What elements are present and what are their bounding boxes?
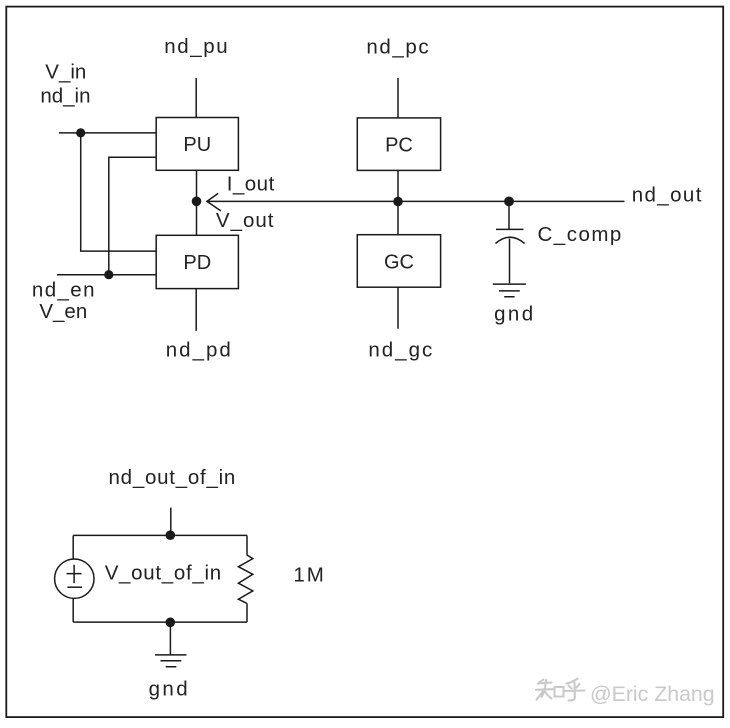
wire nd_en input — [57, 274, 156, 276]
buffer block PU — [156, 118, 238, 171]
buffer block PD — [156, 235, 238, 288]
wire V_in down to PD — [81, 133, 157, 251]
capacitor C_comp lead bottom — [509, 239, 511, 284]
junction dot V_out node — [192, 197, 202, 207]
watermark zhihu glyph zhi — [536, 680, 564, 700]
buffer block PC — [357, 118, 440, 170]
svg-text:nd_in: nd_in — [40, 84, 90, 107]
svg-text:PC: PC — [385, 134, 413, 156]
svg-text:@Eric Zhang: @Eric Zhang — [590, 682, 715, 706]
svg-text:gnd: gnd — [149, 677, 190, 700]
wire right rail lower — [246, 603, 248, 622]
junction dot C_comp node — [504, 197, 514, 207]
svg-text:nd_out: nd_out — [632, 184, 703, 207]
svg-text:V_en: V_en — [39, 300, 87, 323]
svg-text:nd_gc: nd_gc — [368, 338, 434, 361]
wire bottom rail — [73, 621, 247, 623]
node nd_pd wire — [195, 289, 197, 331]
svg-text:nd_pu: nd_pu — [164, 35, 229, 58]
wire PC to GC — [397, 170, 399, 234]
svg-text:I_out: I_out — [227, 172, 275, 195]
wire left rail upper — [72, 535, 74, 559]
svg-text:PD: PD — [183, 252, 211, 274]
svg-text:C_comp: C_comp — [538, 223, 623, 246]
svg-text:gnd: gnd — [494, 303, 535, 326]
voltage source V_out_of_in circle — [55, 559, 94, 598]
wire PU to PD — [196, 170, 198, 235]
node nd_out_of_in stub wire — [170, 508, 172, 536]
ground symbol top — [493, 284, 526, 297]
capacitor C_comp lead top — [508, 201, 510, 229]
junction dot nd_out_of_in top — [166, 530, 176, 540]
junction dot V_in node — [76, 128, 85, 137]
node nd_gc wire — [397, 287, 399, 329]
junction dot PC-GC node — [393, 197, 403, 207]
voltage source plus sign — [67, 565, 82, 583]
wire right rail upper — [246, 535, 248, 555]
resistor 1M zigzag — [238, 555, 252, 603]
wire nd_out horizontal — [207, 200, 625, 202]
wire top rail — [73, 534, 247, 536]
svg-text:nd_pd: nd_pd — [166, 338, 233, 361]
node nd_pu wire — [195, 78, 197, 118]
wire V_in input — [59, 132, 156, 134]
svg-text:V_out: V_out — [216, 209, 275, 232]
svg-text:V_in: V_in — [45, 60, 86, 83]
capacitor C_comp plates — [496, 229, 525, 243]
svg-text:GC: GC — [384, 251, 414, 273]
voltage source minus sign — [67, 586, 82, 588]
svg-text:nd_en: nd_en — [32, 279, 96, 302]
node nd_pc wire — [397, 78, 399, 118]
ground symbol bottom — [155, 655, 187, 667]
svg-text:nd_out_of_in: nd_out_of_in — [109, 466, 237, 489]
svg-text:1M: 1M — [293, 564, 325, 587]
svg-text:V_out_of_in: V_out_of_in — [105, 562, 222, 585]
wire en up to PU — [109, 157, 156, 274]
svg-text:nd_pc: nd_pc — [366, 35, 430, 58]
wire left rail lower — [72, 598, 74, 622]
buffer block GC — [357, 235, 440, 288]
arrowhead I_out — [207, 193, 221, 211]
svg-text:PU: PU — [183, 134, 211, 156]
watermark zhihu glyph hu — [564, 679, 585, 701]
wire to bottom ground — [169, 622, 171, 654]
junction dot nd_en node — [104, 270, 113, 279]
junction dot ground bottom — [166, 618, 176, 628]
